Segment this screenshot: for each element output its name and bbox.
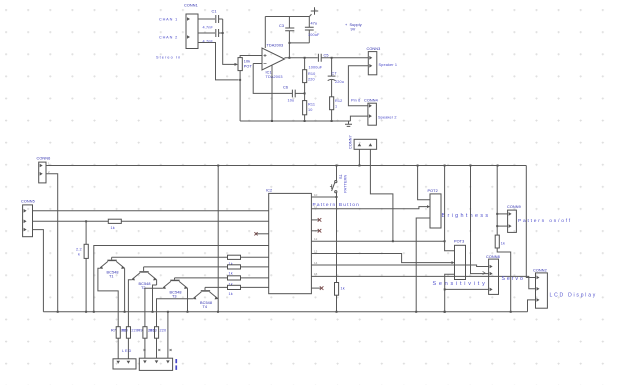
junction R2 pulldown	[85, 220, 87, 222]
IC2 microcontroller	[269, 193, 312, 293]
svg-text:TDA2003: TDA2003	[267, 44, 284, 48]
base row 4 wire	[205, 286, 228, 288]
svg-text:C1: C1	[212, 10, 217, 14]
svg-text:PATTERN: PATTERN	[344, 174, 348, 192]
svg-text:R13: R13	[150, 329, 157, 333]
pin arrow CONN4-1	[369, 104, 372, 108]
junction p5 v2	[444, 240, 446, 242]
svg-text:LCD Display: LCD Display	[550, 293, 598, 299]
svg-text:12: 12	[314, 237, 318, 241]
svg-text:11: 11	[314, 205, 317, 209]
capacitor C3 bootstrap	[288, 17, 290, 29]
unconnected X pinR3	[318, 218, 322, 222]
svg-text:CONN3: CONN3	[367, 47, 381, 51]
pin arrow CONN7-1	[358, 143, 362, 146]
resistor R5	[228, 276, 241, 280]
pin arrow CONN1-1	[187, 17, 190, 21]
svg-text:T1: T1	[109, 275, 114, 279]
pin arrow CONN1-2	[187, 35, 190, 39]
svg-text:Brightness: Brightness	[442, 213, 491, 219]
svg-text:Pin 6: Pin 6	[351, 99, 360, 103]
pin arrow CONN5-2	[24, 220, 27, 224]
wire CONN9 pin1	[497, 213, 507, 215]
ground symbol amp	[348, 121, 350, 124]
svg-text:Servo: Servo	[502, 276, 525, 282]
wire S1 net down to R14	[336, 197, 338, 283]
svg-text:220: 220	[160, 329, 167, 333]
svg-text:10: 10	[314, 193, 318, 197]
pin arrow LED2-1	[143, 360, 147, 363]
wire op-amp V+ vertical	[264, 17, 266, 49]
wire C5 to speaker1	[321, 57, 368, 59]
wiper arrow POT2	[427, 205, 430, 208]
wire Q2 collector to LED resistor	[128, 280, 131, 327]
wire CONN1 pin2 to C2	[198, 32, 215, 34]
wire speaker1 pin2 to speaker2 pin1	[348, 66, 368, 106]
junction rail R12	[331, 120, 333, 122]
svg-text:LED: LED	[122, 349, 132, 353]
svg-text:1000uF: 1000uF	[309, 66, 323, 70]
svg-text:R7: R7	[111, 329, 116, 333]
wire R6 to IC2	[241, 286, 269, 288]
svg-text:R8: R8	[122, 329, 127, 333]
svg-text:k: k	[78, 253, 80, 257]
transistor Q4	[204, 287, 206, 290]
wire IC2 pin4 net to ground	[94, 246, 269, 312]
svg-text:220u: 220u	[335, 80, 344, 84]
svg-text:9V: 9V	[351, 27, 356, 31]
junction rail x93	[93, 311, 95, 313]
resistor R10	[304, 58, 306, 70]
connector CONN2 LCD	[536, 273, 548, 308]
wire R1 to IC2	[121, 220, 268, 222]
pin arrow CONN9-1	[509, 212, 512, 216]
junction VR1 bottom	[239, 79, 241, 81]
connector LED1	[113, 359, 136, 369]
potentiometer POT2 brightness	[430, 194, 441, 228]
capacitor C5 output	[318, 54, 321, 62]
junction rail R14	[336, 311, 338, 313]
pin arrow CONN6-1	[40, 164, 43, 168]
transistor Q2	[143, 267, 145, 271]
wire IC2 pinR2 to brightness wiper	[311, 207, 427, 209]
wire op-amp gnd pin down	[271, 65, 273, 121]
svg-text:1k: 1k	[341, 287, 345, 291]
LED2 side marker lower	[175, 365, 177, 370]
junction feedback R column	[304, 92, 306, 94]
pin arrow LED2-3	[166, 360, 170, 363]
svg-text:CONN8: CONN8	[486, 255, 500, 259]
svg-text:CONN6: CONN6	[37, 157, 51, 161]
capacitor C6 feedback	[292, 90, 295, 98]
unconnected X mark	[254, 232, 257, 235]
wire VR1 bottom to rail	[239, 71, 241, 121]
wire sensitivity bottom to ground	[445, 274, 455, 312]
wire servo ground to ground drop	[445, 288, 489, 290]
pin arrow CONN4-2	[369, 114, 372, 118]
svg-text:T3: T3	[172, 295, 177, 299]
svg-text:CONN9: CONN9	[507, 205, 521, 209]
pin arrow CONN2-1	[537, 276, 540, 280]
svg-text:Speaker 2: Speaker 2	[378, 116, 397, 120]
tick marks LED row	[144, 349, 146, 351]
amp ground rail	[240, 120, 350, 122]
svg-text:POT2: POT2	[428, 189, 438, 193]
wire IC2 pinR9 stub	[311, 287, 321, 289]
wire IC2 pinR6 to sensitivity wiper	[311, 254, 452, 263]
wire brightness bottom to ground	[416, 218, 430, 312]
junction CONN9 pin2	[496, 225, 498, 227]
junction rail R11	[304, 120, 306, 122]
wire IC2 pinR7 to servo signal	[311, 265, 488, 267]
wire CONN7 pin1 to VCC rail	[358, 149, 360, 165]
junction VCC rail v1	[417, 165, 419, 167]
wire S1 bottom to IC2	[336, 193, 338, 197]
svg-text:CHAN 2: CHAN 2	[159, 36, 178, 40]
connector CONN4 speaker2	[368, 103, 377, 125]
wire VCC rail corner to LCD	[526, 166, 535, 278]
svg-text:S1: S1	[339, 174, 343, 179]
pin arrow CONN5-1	[24, 209, 27, 213]
pin arrow CONN7-2	[369, 143, 373, 146]
wire IC2 pinR8 to LCD data	[311, 276, 535, 288]
junction rail opamp gnd	[271, 120, 273, 122]
zobel resistor R12	[331, 80, 333, 97]
base row 3 wire	[175, 277, 228, 279]
svg-text:220: 220	[308, 78, 315, 82]
junction rail brightness	[415, 311, 417, 313]
pin arrow LED1-2	[127, 361, 131, 364]
capacitor C1	[216, 15, 219, 23]
unconnected X pinR4	[318, 229, 322, 233]
svg-text:CHAN 1: CHAN 1	[159, 18, 178, 22]
capacitor C2	[216, 29, 219, 37]
svg-text:1k: 1k	[111, 226, 115, 230]
wire CONN5 pin2 to R1	[33, 220, 109, 222]
wire VCC bus v2 to sensitivity top	[445, 166, 455, 251]
wire speaker2 pin2 to ground	[350, 116, 368, 121]
junction S1 pin net	[336, 196, 338, 198]
connector CONN8 servo	[489, 259, 499, 294]
LED2 side marker	[175, 359, 177, 363]
transistor Q1	[111, 257, 113, 259]
svg-text:C5: C5	[324, 54, 329, 58]
wire Q2 emitter to ground	[156, 280, 158, 285]
wire IC2 pinR3 stub	[311, 219, 319, 221]
pin arrow CONN5-3	[24, 228, 27, 232]
svg-text:2.2: 2.2	[76, 248, 82, 252]
wire VCC to brightness top	[418, 166, 430, 200]
svg-text:4.7nF: 4.7nF	[203, 26, 214, 30]
svg-text:10u: 10u	[288, 99, 295, 103]
resistor R14 pulldown	[335, 283, 339, 296]
junction rail q4e	[217, 311, 219, 313]
potentiometer VR1 body	[238, 58, 242, 71]
capacitor C4 supply 100uF	[308, 17, 310, 28]
junction rail v2	[444, 311, 446, 313]
wire cap bottoms link	[289, 42, 309, 44]
svg-text:C7: C7	[332, 72, 337, 76]
wire VCC to servo supply	[471, 166, 489, 274]
wire ground rail up to LCD pin3	[528, 300, 536, 312]
junction rail x86	[85, 311, 87, 313]
svg-text:Stereo In: Stereo In	[156, 56, 181, 60]
junction C3 column	[288, 42, 290, 44]
wire CONN9 pin2 tee	[497, 225, 507, 227]
potentiometer VR1 wiper arrow	[235, 63, 239, 66]
resistor R1	[108, 219, 121, 223]
junction servo ground	[444, 288, 446, 290]
svg-text:Sensitivity: Sensitivity	[433, 281, 488, 287]
wire Q2 emitter lower	[153, 285, 157, 312]
pin arrow CONN8-3	[490, 288, 493, 292]
connector CONN5	[23, 205, 33, 237]
svg-text:TDA2003: TDA2003	[266, 75, 283, 79]
pushbutton S1 stem	[336, 166, 338, 181]
wire IC2 pinR4 stub	[311, 230, 319, 232]
junction rail x57	[57, 311, 59, 313]
svg-text:15: 15	[314, 272, 318, 276]
svg-text:POT: POT	[244, 65, 253, 69]
svg-text:CONN5: CONN5	[21, 200, 35, 204]
pin arrow CONN3-2	[369, 64, 372, 68]
svg-text:IC2: IC2	[266, 189, 272, 193]
resistor R2 2.2k pulldown	[85, 221, 87, 244]
unconnected X pinR9	[320, 286, 324, 290]
svg-text:R11: R11	[308, 103, 315, 107]
wire Q4 collector to LED resistor	[157, 299, 194, 327]
junction pinR5 net	[392, 240, 394, 242]
wire op-amp output	[285, 57, 318, 59]
junction VCC rail v4	[497, 165, 499, 167]
arrow mark servo supply	[483, 271, 485, 274]
junction rail q2e	[152, 311, 154, 313]
connector CONN7 pattern button	[354, 139, 377, 149]
wire R15 to ground	[497, 248, 511, 312]
wire C2 to node	[219, 32, 223, 34]
bottom ground rail	[43, 311, 527, 313]
svg-text:CONN2: CONN2	[533, 269, 547, 273]
resistor R3	[228, 255, 241, 259]
svg-text:T4: T4	[203, 305, 208, 309]
base row 1 wire	[112, 256, 228, 258]
feedback wire row	[253, 64, 292, 94]
svg-text:R10: R10	[308, 72, 315, 76]
junction node A	[222, 32, 224, 34]
junction rail q3e	[187, 311, 189, 313]
junction rail sensitivity	[444, 311, 446, 313]
junction rail R15	[510, 311, 512, 313]
svg-text:C3: C3	[279, 24, 284, 28]
svg-text:C6: C6	[283, 86, 288, 90]
svg-text:4.7nF: 4.7nF	[203, 40, 214, 44]
wire Q1 collector to LED resistor	[98, 268, 118, 326]
wire CONN1 pin1 to C1	[198, 18, 215, 20]
wire op-amp minus input	[253, 63, 262, 65]
pin arrow CONN8-2	[490, 272, 493, 276]
transistor Q3	[174, 278, 176, 280]
wire node A vertical	[223, 19, 235, 64]
junction zobel	[331, 57, 333, 59]
wire LED2 common to ground rail	[167, 312, 169, 358]
junction CONN9 pin1	[496, 213, 498, 215]
junction output R10	[304, 57, 306, 59]
svg-text:R9: R9	[138, 329, 143, 333]
junction output bootstrap	[288, 57, 290, 59]
svg-text:CONN1: CONN1	[184, 4, 198, 8]
pin arrow CONN2-3	[537, 298, 540, 302]
pin arrow CONN9-2	[509, 224, 512, 228]
svg-text:Speaker 1: Speaker 1	[379, 63, 398, 67]
connector LED2	[139, 358, 172, 370]
wire CONN5 pin3 to ground	[33, 230, 44, 312]
resistor R6	[228, 285, 241, 289]
junction VCC rail button	[336, 165, 338, 167]
resistor R4	[228, 265, 241, 269]
resistor R11	[304, 93, 306, 100]
wire V+ top rail	[265, 16, 309, 18]
wire CONN1 pin3 ground run	[198, 43, 239, 80]
svg-text:47u: 47u	[311, 22, 318, 26]
junction top rail Q4 bus	[217, 165, 219, 167]
pin arrow CONN6-2	[40, 172, 43, 176]
pushbutton S1	[335, 181, 337, 183]
connector CONN9 pattern on/off	[508, 210, 517, 232]
svg-text:IC1: IC1	[266, 71, 272, 75]
wire IC2 pinR5 to sensitivity top	[311, 240, 444, 242]
wire VR1 top to op-amp plus input	[240, 56, 262, 58]
svg-text:1k: 1k	[229, 292, 233, 296]
svg-text:1k: 1k	[229, 271, 233, 275]
junction rail q1e	[124, 311, 126, 313]
wire C1 to node	[219, 18, 223, 20]
svg-text:1k: 1k	[501, 242, 505, 246]
junction VCC rail v3	[470, 165, 472, 167]
pin arrow LED2-2	[155, 360, 159, 363]
wire R3 to IC2	[241, 256, 269, 258]
svg-text:13: 13	[314, 249, 318, 253]
svg-text:10k: 10k	[244, 60, 250, 64]
svg-text:R12: R12	[335, 99, 342, 103]
svg-text:10: 10	[308, 108, 313, 112]
wire VCC to pattern switch conn	[496, 166, 498, 236]
wire CONN5 pin1 to IC2	[33, 210, 269, 212]
connector CONN6 power	[39, 162, 46, 183]
svg-text:CONN4: CONN4	[364, 99, 378, 103]
zobel capacitor C7	[331, 58, 333, 76]
wire Q4 emitter bus to rails	[217, 166, 219, 312]
wire IC2 pinR1 to button net	[311, 196, 336, 198]
wire Q3 collector to LED resistor	[145, 288, 163, 326]
pin arrow CONN8-1	[490, 265, 493, 269]
base row 2 wire	[144, 266, 228, 268]
potentiometer POT3 sensitivity	[455, 245, 466, 279]
wire CONN7 pin2 to pinR5 net	[370, 149, 393, 241]
pin arrow LED1-1	[116, 361, 120, 364]
wire R4 to IC2	[241, 266, 269, 268]
supply +9V symbol	[309, 14, 311, 16]
pin arrow CONN3-1	[369, 56, 372, 60]
svg-text:CONN7: CONN7	[349, 135, 353, 149]
top VCC rail	[46, 165, 526, 167]
wire Q3 emitter to ground	[187, 288, 189, 312]
junction VCC rail button conn	[358, 165, 360, 167]
connector CONN1 stereo input	[186, 14, 198, 49]
wiper arrow POT3	[452, 261, 455, 264]
wire CONN6 pin2 to ground	[46, 174, 58, 312]
op-amp U1 TDA2003	[262, 48, 285, 70]
junction VCC rail v2	[444, 165, 446, 167]
wire R5 to IC2	[241, 277, 269, 279]
svg-text:POT3: POT3	[454, 239, 464, 243]
resistor R15	[495, 235, 499, 248]
junction rail LED2 common	[167, 311, 169, 313]
svg-text:1: 1	[335, 105, 337, 109]
wire IC2 pin3 stub	[257, 233, 269, 235]
svg-text:14: 14	[314, 261, 318, 265]
wire Q1 emitter to ground	[124, 268, 126, 312]
pin arrow CONN2-2	[537, 287, 540, 291]
svg-text:100uF: 100uF	[308, 33, 320, 37]
